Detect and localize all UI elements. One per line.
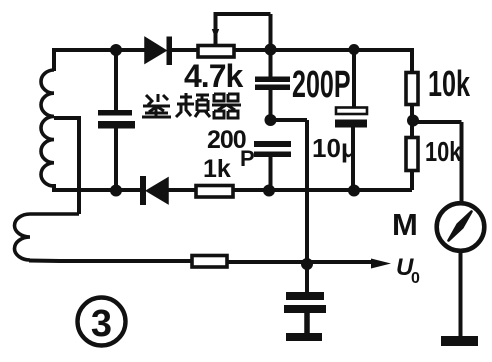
svg-text:P: P [240,146,255,171]
wire RP1 wiper loop [214,14,271,50]
junction node out [301,258,313,270]
capacitor C5 [284,292,326,313]
resistor R1 1k [196,186,233,198]
wire left vertical [52,48,56,71]
wire node B branch [271,120,308,263]
ground output [286,333,322,341]
potentiometer RP1 [198,46,234,58]
node U0 label [396,254,420,287]
junction dot B [265,44,277,56]
inductor L1 [41,70,54,186]
wire R3 to bottom rail [410,170,414,190]
wire C1 to bottom rail [114,126,118,190]
wire junction1 to C1 [114,50,118,111]
wire output line [29,261,374,263]
junction dot F [348,185,360,197]
svg-text:M: M [392,207,418,242]
junction dot A [110,44,122,56]
svg-text:10k: 10k [425,136,461,167]
wire C4 to bottom rail [351,127,355,190]
junction dot H [407,115,419,127]
svg-text:10μ: 10μ [312,133,357,163]
wire C4 10u top [352,50,356,108]
器 [212,94,241,118]
capacitor C1 [98,110,135,129]
resistor R3 10k [406,138,418,171]
svg-text:200P: 200P [292,63,351,105]
resistor R4 [192,256,227,268]
wire mid column upper [269,50,273,77]
wire bottom rail [52,184,412,190]
wire R2 to node C [410,104,414,138]
junction dot G [265,114,277,126]
wire tap vertical [77,116,81,214]
resistor R2 10k [406,73,418,105]
鉴 [142,94,171,117]
junction dot D [110,185,122,197]
diode D1 [145,37,172,66]
junction dot E [263,185,275,197]
wire top rail [54,48,412,52]
diode D2 [140,176,168,205]
wire meter to ground [459,250,463,336]
wire C2 to node B [269,90,273,120]
meter M [437,203,485,251]
figure number 3 [78,298,126,346]
junction dot C [349,44,360,55]
svg-text:0: 0 [411,270,420,287]
wire right column top [410,50,412,73]
arrowhead RP1 wiper [212,29,219,39]
svg-text:3: 3 [91,303,112,345]
label 鉴频器 (discriminator) [142,93,241,118]
wire L1 tap [54,116,79,120]
wire node C to meter [414,122,462,204]
频 [176,93,210,117]
arrowhead U0 [371,259,391,269]
wire C5 to ground [304,313,310,333]
capacitor C4 10u [335,108,367,128]
capacitor C3 200P [254,141,291,157]
capacitor C2 200P [255,77,290,91]
inductor L2 [14,214,79,260]
svg-text:4.7k: 4.7k [184,58,243,94]
wire node out to C5 [305,263,309,292]
ground meter [441,336,478,346]
svg-text:1k: 1k [203,155,231,183]
wire C3 to bottom rail [269,157,273,190]
svg-text:10k: 10k [428,64,471,105]
